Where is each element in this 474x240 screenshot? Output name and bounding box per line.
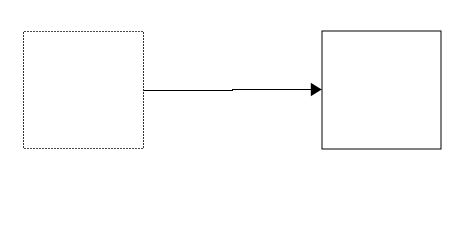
wire — [144, 90, 313, 91]
solid box (right) — [322, 31, 441, 149]
dashed box (left) — [24, 32, 144, 149]
arrowhead — [311, 83, 322, 97]
